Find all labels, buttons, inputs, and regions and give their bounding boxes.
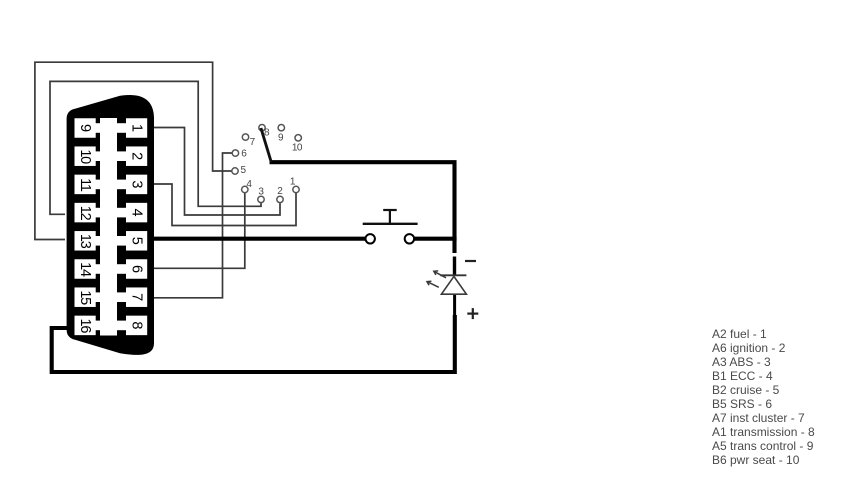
svg-text:A6 ignition - 2: A6 ignition - 2	[712, 341, 786, 355]
svg-text:15: 15	[77, 290, 93, 305]
svg-text:B5 SRS - 6: B5 SRS - 6	[712, 397, 772, 411]
svg-text:14: 14	[77, 262, 93, 277]
svg-text:13: 13	[77, 234, 93, 249]
svg-text:A5 trans control - 9: A5 trans control - 9	[712, 439, 814, 453]
pin 3	[116, 175, 147, 195]
svg-text:6: 6	[129, 265, 145, 273]
svg-text:B1 ECC - 4: B1 ECC - 4	[712, 369, 773, 383]
svg-text:9: 9	[278, 133, 284, 144]
svg-text:10: 10	[292, 142, 303, 153]
LED D1 emission arrow 1	[434, 271, 446, 278]
rotary switch SW1 contact 2	[277, 196, 283, 202]
rotary switch SW1 contact 8	[259, 125, 265, 131]
pin 2	[116, 146, 147, 166]
svg-text:B2 cruise - 5: B2 cruise - 5	[712, 383, 780, 397]
LED D1 emission arrow 2	[427, 281, 439, 287]
svg-text:5: 5	[129, 237, 145, 245]
rotary switch SW1 contact 5	[232, 168, 238, 174]
svg-text:16: 16	[77, 319, 93, 334]
rotary switch SW1 lever (on position 8)	[261, 128, 271, 162]
svg-text:10: 10	[77, 149, 93, 164]
pin 16	[75, 316, 102, 336]
svg-text:7: 7	[129, 293, 145, 301]
legend text	[712, 327, 815, 467]
pin 9	[75, 118, 102, 138]
wire pin7 to switch contact 6	[154, 153, 232, 298]
svg-text:A1 transmission - 8: A1 transmission - 8	[712, 425, 815, 439]
wire LED anode to pin16 (thick return)	[453, 295, 456, 316]
svg-text:4: 4	[246, 179, 252, 190]
pin 15	[75, 287, 102, 307]
wire LED cathode lead	[453, 257, 456, 275]
connector center channel	[100, 118, 117, 336]
rotary switch SW1 contact 7	[242, 134, 248, 140]
pin 5	[116, 231, 147, 251]
rotary switch SW1 contact 10	[295, 135, 301, 141]
rotary switch SW1 contact 1	[293, 186, 299, 192]
svg-text:3: 3	[129, 180, 145, 188]
pin 8	[116, 316, 147, 336]
pin 12	[75, 203, 102, 223]
pin 7	[116, 287, 147, 307]
pin 1	[116, 118, 147, 138]
pin 4	[116, 203, 147, 223]
svg-text:A2 fuel - 1: A2 fuel - 1	[712, 327, 767, 341]
wire pin6 to switch contact 4	[154, 193, 245, 268]
svg-text:2: 2	[277, 186, 283, 197]
pushbutton S1 plunger	[389, 210, 391, 223]
svg-text:6: 6	[241, 149, 247, 160]
wire switch pole to LED cathode (thick)	[270, 162, 455, 253]
svg-text:B6 pwr seat - 10: B6 pwr seat - 10	[712, 453, 800, 467]
label minus	[465, 260, 476, 262]
svg-text:9: 9	[77, 124, 93, 132]
rotary switch SW1 contact 4	[242, 186, 248, 192]
svg-text:2: 2	[129, 152, 145, 160]
svg-text:1: 1	[129, 124, 145, 132]
rotary switch SW1 contact 3	[258, 196, 264, 202]
LED D1 triangle	[441, 276, 466, 294]
connector J1 OBD-II body	[67, 95, 154, 355]
pin 14	[75, 259, 102, 279]
pin 13	[75, 231, 102, 251]
svg-text:5: 5	[241, 165, 247, 176]
wire pin5 to button (thick)	[154, 237, 366, 241]
pushbutton S1 right terminal	[405, 234, 414, 243]
pin 6	[116, 259, 147, 279]
rotary switch SW1 contact 6	[232, 150, 238, 156]
LED D1 cathode bar	[440, 274, 466, 276]
pushbutton S1 plunger cap	[383, 209, 397, 211]
pushbutton S1 left terminal	[366, 234, 375, 243]
wire pin13 to switch contact 5	[35, 62, 232, 239]
svg-text:A7 inst cluster - 7: A7 inst cluster - 7	[712, 411, 805, 425]
wire pin3 to switch contact 1	[154, 184, 296, 226]
pin 10	[75, 146, 102, 166]
wire pin12 to switch contact 3	[50, 81, 261, 214]
label plus	[467, 308, 478, 319]
wire button to LED node (thick)	[414, 237, 457, 241]
svg-text:A3 ABS - 3: A3 ABS - 3	[712, 355, 771, 369]
wire pin1 to switch contact 2	[154, 128, 280, 216]
pushbutton S1 bar	[363, 223, 418, 225]
svg-text:4: 4	[129, 209, 145, 217]
svg-text:7: 7	[250, 137, 256, 148]
svg-text:8: 8	[129, 321, 145, 329]
rotary switch SW1 contact 9	[278, 125, 284, 131]
svg-text:12: 12	[77, 206, 93, 221]
svg-text:11: 11	[77, 178, 93, 192]
svg-text:8: 8	[264, 127, 270, 138]
svg-text:1: 1	[290, 176, 296, 187]
svg-text:3: 3	[258, 186, 264, 197]
pin 11	[75, 175, 102, 195]
